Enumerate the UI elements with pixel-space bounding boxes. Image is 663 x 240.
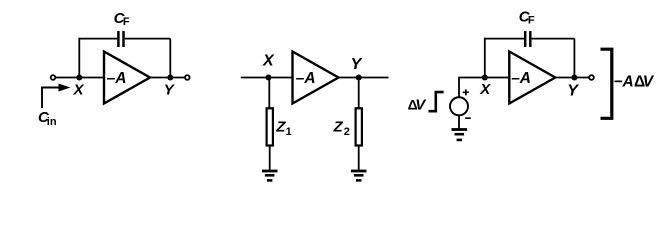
wire feedback right vertical (169, 39, 171, 78)
svg-text:X: X (479, 81, 491, 98)
step waveform symbol (429, 92, 444, 111)
output terminal (open circle, right) (589, 75, 594, 80)
op-amp -A (middle circuit) (293, 52, 339, 104)
wire source to main (459, 78, 510, 98)
svg-text:–A: –A (296, 70, 316, 87)
node Y junction dot (167, 75, 173, 81)
impedance Z2 (356, 108, 362, 145)
wire source to ground (458, 115, 460, 129)
ground (below Z2) (351, 171, 367, 180)
svg-text:–A: –A (107, 70, 127, 87)
voltage source circle (450, 97, 468, 115)
wire feedback top right (right circuit) (532, 38, 575, 40)
wire amp output to Y (150, 77, 185, 79)
ground (below Z1) (262, 171, 278, 180)
svg-text:–A: –A (511, 70, 531, 87)
node X junction dot (right) (482, 75, 488, 81)
wire Z2 to ground (358, 147, 360, 171)
wire input to amp (56, 77, 105, 79)
wire Y to Z2 (358, 78, 360, 109)
wire Z1 to ground (269, 147, 271, 171)
wire input to amp (middle) (241, 77, 293, 79)
wire feedback top right (125, 38, 171, 40)
node Y junction dot (right) (571, 75, 577, 81)
wire feedback right vertical (right circuit) (573, 39, 575, 78)
op-amp -A (right circuit) (509, 52, 555, 104)
svg-text:in: in (47, 116, 57, 128)
voltage source plus sign (463, 89, 469, 95)
svg-text:V: V (643, 74, 655, 91)
impedance Z1 (267, 108, 273, 145)
svg-text:X: X (73, 81, 85, 98)
wire feedback left vertical (right circuit) (484, 38, 486, 78)
svg-text:−A: −A (614, 74, 634, 91)
wire feedback left vertical (78, 38, 80, 78)
wire amp output to Y (right) (555, 77, 589, 79)
wire amp output (middle) (339, 77, 389, 79)
node Y junction dot (middle) (356, 75, 362, 81)
svg-text:Y: Y (351, 56, 363, 73)
node X junction dot (middle) (266, 75, 272, 81)
output terminal (open circle) (185, 75, 190, 80)
svg-text:F: F (123, 16, 130, 28)
wire feedback top left (79, 38, 118, 40)
svg-text:Z: Z (333, 119, 344, 136)
voltage source minus sign (465, 117, 471, 119)
svg-text:2: 2 (344, 126, 350, 138)
ground (below source) (452, 130, 468, 140)
capacitor CF (right circuit) (525, 31, 530, 47)
capacitor CF (left circuit) (118, 31, 123, 47)
Cin arrow annotation (42, 84, 71, 109)
svg-text:Y: Y (567, 82, 579, 99)
op-amp -A (left circuit) (104, 52, 150, 104)
svg-text:F: F (528, 15, 535, 27)
svg-text:1: 1 (286, 126, 292, 138)
svg-text:X: X (262, 52, 275, 69)
wire feedback top left (right circuit) (484, 38, 524, 40)
output bracket (601, 49, 612, 118)
input terminal (open circle) (51, 75, 56, 80)
node X junction dot (76, 75, 82, 81)
wire X to Z1 (268, 78, 270, 109)
